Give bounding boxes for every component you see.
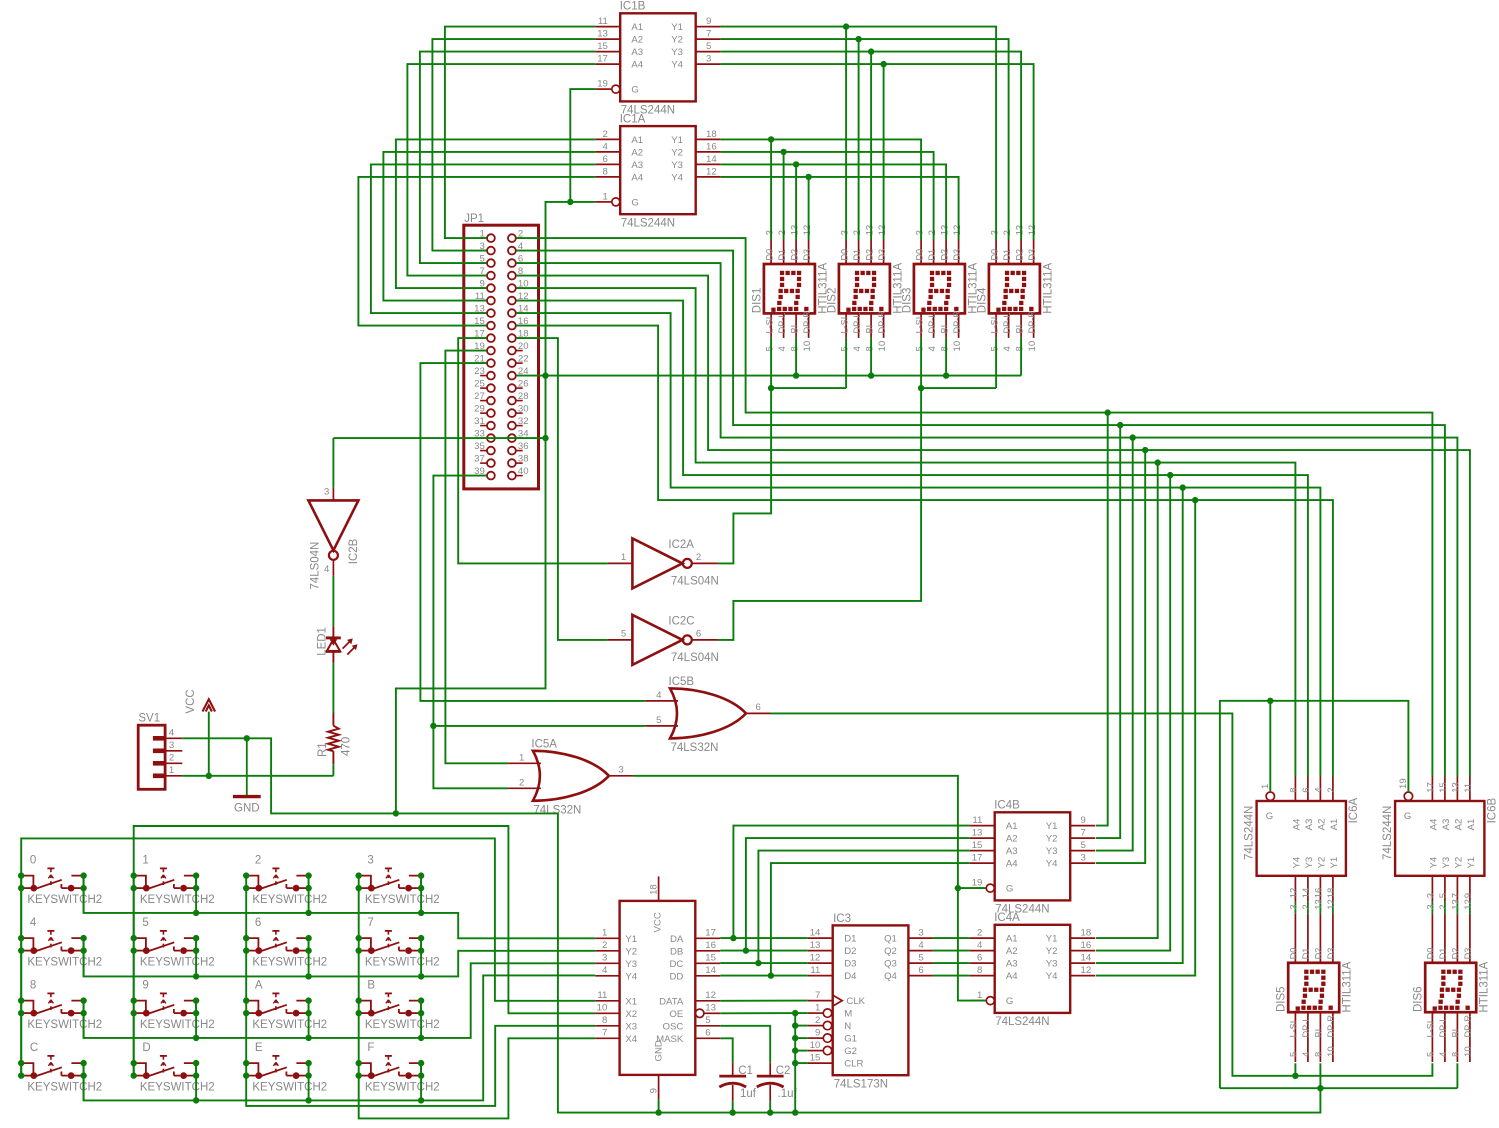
- svg-text:DP-R: DP-R: [877, 311, 887, 334]
- IC3 pin CLK (7): [808, 1000, 833, 1002]
- inverter IC2A 74LS04N: [632, 538, 682, 588]
- svg-text:9: 9: [1081, 815, 1086, 826]
- svg-text:Y4: Y4: [671, 173, 683, 184]
- DIS6 pin BI (8): [1456, 1012, 1458, 1062]
- svg-text:Y4: Y4: [1046, 971, 1058, 982]
- svg-text:18: 18: [1326, 888, 1337, 899]
- svg-text:6: 6: [918, 965, 923, 976]
- encoder pin X4 (7): [595, 1037, 619, 1039]
- svg-text:5: 5: [705, 1015, 710, 1026]
- wire JP1 pin 2 data line 0: [516, 238, 1432, 776]
- svg-text:DP-L: DP-L: [1002, 313, 1012, 334]
- DIS2 pin D0 (3): [845, 240, 847, 265]
- svg-text:1: 1: [142, 855, 148, 867]
- junction row 2 bus col 1: [193, 1035, 199, 1041]
- svg-text:DIS5: DIS5: [1276, 986, 1288, 1012]
- svg-text:74LS173N: 74LS173N: [834, 1079, 888, 1091]
- wire JP1 pin 33-34 row to IC2B input: [333, 437, 545, 439]
- svg-text:G: G: [631, 85, 638, 96]
- buffer IC1A 74LS244N box: [620, 126, 696, 214]
- junction GND at C2: [767, 1109, 773, 1115]
- svg-text:KEYSWITCH2: KEYSWITCH2: [140, 894, 215, 906]
- junction IC1B Y2 at DIS2 D1: [855, 36, 861, 42]
- svg-text:13: 13: [810, 940, 821, 951]
- svg-text:8: 8: [1314, 1052, 1325, 1057]
- IC6B pin Y3 (5): [1444, 876, 1446, 902]
- display DIS2 HTIL311A box: [839, 264, 890, 313]
- svg-text:D3: D3: [1027, 249, 1037, 261]
- wire IC1B Y3 to DIS2/DIS4 D2: [721, 52, 1021, 240]
- svg-text:29: 29: [474, 404, 485, 415]
- svg-text:A3: A3: [1304, 819, 1315, 831]
- svg-text:DP-L: DP-L: [1438, 1017, 1448, 1038]
- svg-text:F: F: [367, 1042, 374, 1054]
- svg-text:5: 5: [656, 715, 661, 726]
- svg-text:HTIL311A: HTIL311A: [1042, 263, 1054, 314]
- keyswitch D KEYSWITCH2: [131, 1042, 215, 1093]
- IC3 pin G1 (9): [808, 1037, 824, 1039]
- junction control riser at IC3 N: [792, 1022, 798, 1028]
- junction enable net / BI line: [542, 372, 548, 378]
- DIS1 pin BI (8): [795, 313, 797, 338]
- wire data line 0 to IC4B Y1: [1096, 413, 1108, 826]
- DIS3 pin D0 (3): [920, 240, 922, 265]
- svg-text:Y2: Y2: [1454, 857, 1465, 869]
- svg-text:Y3: Y3: [1046, 959, 1058, 970]
- svg-text:8: 8: [864, 346, 875, 351]
- wire L-SI DIS3-DIS4 from IC2C output: [921, 387, 996, 389]
- keyswitch 0 KEYSWITCH2: [18, 855, 102, 906]
- wire BI bus displays 1-4: [546, 375, 1022, 377]
- IC1A pin Y3 (14): [696, 163, 721, 165]
- svg-text:4: 4: [324, 564, 330, 575]
- svg-text:A1: A1: [631, 22, 643, 33]
- svg-text:38: 38: [518, 454, 529, 465]
- svg-text:DP-R: DP-R: [802, 311, 812, 334]
- svg-text:5: 5: [839, 346, 850, 351]
- power symbol VCC: [185, 689, 215, 713]
- svg-text:2: 2: [927, 230, 938, 235]
- svg-text:16: 16: [706, 141, 717, 152]
- wire DIS6 BI riser: [1456, 1063, 1458, 1088]
- wire IC5B output to DIS5/DIS6 L-SI: [771, 713, 1433, 1075]
- svg-text:1: 1: [815, 1003, 820, 1014]
- wire data line 1 to IC4B Y2: [1096, 425, 1120, 838]
- wire JP1 pin 8 data line 3: [516, 276, 1470, 777]
- svg-text:6: 6: [696, 629, 701, 640]
- wire IC5A output to IC4B/IC4A G: [633, 776, 985, 1001]
- svg-text:A1: A1: [1006, 934, 1018, 945]
- svg-text:7: 7: [1081, 828, 1086, 839]
- svg-text:DIS6: DIS6: [1413, 986, 1425, 1012]
- IC6A pin Y4 (12): [1294, 876, 1296, 902]
- encoder pin X3 (8): [595, 1025, 619, 1027]
- svg-text:KEYSWITCH2: KEYSWITCH2: [365, 1019, 440, 1031]
- svg-text:10: 10: [877, 341, 888, 352]
- wire DB to IC4B A2: [746, 838, 970, 951]
- svg-text:0: 0: [30, 855, 36, 867]
- IC3 pin D1 (14): [808, 937, 833, 939]
- IC1A pin A3 (6): [595, 163, 620, 165]
- svg-text:D3: D3: [844, 959, 856, 970]
- svg-text:VCC: VCC: [185, 689, 197, 713]
- svg-text:5: 5: [764, 346, 775, 351]
- svg-text:IC2B: IC2B: [348, 538, 360, 564]
- junction DD riser: [768, 972, 774, 978]
- svg-text:JP1: JP1: [464, 213, 484, 225]
- svg-text:2: 2: [696, 552, 701, 563]
- IC3 pin D3 (12): [808, 962, 833, 964]
- svg-text:KEYSWITCH2: KEYSWITCH2: [27, 894, 102, 906]
- junction OE/M at control riser: [792, 1010, 798, 1016]
- svg-text:13: 13: [1014, 225, 1025, 236]
- DIS4 pin BI (8): [1020, 313, 1022, 338]
- svg-text:N: N: [844, 1021, 851, 1032]
- svg-text:G: G: [1404, 811, 1411, 822]
- encoder pin DATA (12): [695, 1000, 720, 1002]
- IC6A pin A1 (2): [1332, 777, 1334, 802]
- svg-text:12: 12: [706, 166, 717, 177]
- IC4B pin G (19) with bubble: [970, 887, 986, 889]
- svg-text:A3: A3: [1441, 819, 1452, 831]
- IC3 pin D2 (13): [808, 950, 833, 952]
- DIS3 pin D1 (2): [933, 240, 935, 265]
- svg-text:D2: D2: [1451, 948, 1461, 960]
- svg-text:Y2: Y2: [1046, 946, 1058, 957]
- svg-text:26: 26: [518, 379, 529, 390]
- buffer IC6B 74LS244N box (rotated): [1395, 801, 1484, 876]
- svg-text:2: 2: [777, 230, 788, 235]
- svg-text:23: 23: [474, 366, 485, 377]
- keyswitch C KEYSWITCH2: [18, 1042, 102, 1093]
- connector JP1 40-pin header: [464, 213, 539, 489]
- junction IC1B Y1 at DIS2 D0: [843, 23, 849, 29]
- svg-text:32: 32: [518, 416, 529, 427]
- wire encoder OSC to C2: [720, 1026, 770, 1063]
- svg-text:6: 6: [1301, 787, 1312, 792]
- or-gate IC5A 74LS32N: [533, 751, 609, 801]
- svg-text:B: B: [367, 980, 375, 992]
- svg-text:Y2: Y2: [625, 946, 637, 957]
- svg-text:A4: A4: [631, 60, 643, 71]
- DIS4 dot-matrix digit 8: [1005, 271, 1009, 275]
- svg-text:9: 9: [706, 16, 711, 27]
- svg-text:DP-R: DP-R: [952, 311, 962, 334]
- svg-text:HTIL311A: HTIL311A: [1342, 961, 1354, 1012]
- svg-text:VCC: VCC: [653, 912, 664, 932]
- svg-text:5: 5: [142, 917, 148, 929]
- svg-text:KEYSWITCH2: KEYSWITCH2: [252, 894, 327, 906]
- svg-text:74LS244N: 74LS244N: [1243, 806, 1255, 860]
- junction DC riser: [755, 960, 761, 966]
- svg-text:D0: D0: [1289, 948, 1299, 960]
- encoder pin Y3 (3): [595, 962, 619, 964]
- IC3 pin D4 (11): [808, 975, 833, 977]
- encoder pin Y1 (1): [595, 937, 619, 939]
- DIS2 pin DP-L (4): [858, 313, 860, 338]
- svg-text:Y3: Y3: [671, 160, 683, 171]
- svg-text:1: 1: [621, 552, 626, 563]
- IC4A pin A3 (6): [970, 962, 995, 964]
- display DIS1 HTIL311A box: [764, 264, 815, 313]
- junction IC1A Y1 at DIS1 D0: [768, 136, 774, 142]
- junction data line 3 to IC4 buffer: [1142, 447, 1148, 453]
- svg-text:6: 6: [603, 154, 608, 165]
- junction L-SI at DIS3: [918, 385, 924, 391]
- junction row 0 bus col 1: [193, 910, 199, 916]
- svg-text:5: 5: [1438, 893, 1449, 898]
- svg-text:A2: A2: [631, 35, 643, 46]
- keyswitch 5 KEYSWITCH2: [131, 917, 215, 968]
- capacitor C2 .1uf: [757, 1063, 798, 1101]
- wire JP1 pin 1 to IC1B A1: [445, 27, 595, 239]
- IC4B pin A3 (15): [970, 850, 995, 852]
- svg-text:IC6A: IC6A: [1348, 798, 1360, 824]
- IC1B pin G (19) with bubble: [595, 88, 611, 90]
- encoder pin DA (17): [695, 937, 720, 939]
- IC6B pin Y4 (3): [1431, 876, 1433, 902]
- IC1B pin A3 (15): [595, 51, 620, 53]
- svg-text:15: 15: [705, 953, 716, 964]
- IC4B pin A1 (11): [970, 825, 995, 827]
- register IC3 74LS173N box: [833, 913, 909, 1091]
- svg-text:Y3: Y3: [1046, 846, 1058, 857]
- DIS6 pin L-SI (5): [1431, 1012, 1433, 1062]
- wire IC3 control riser to GND: [794, 1013, 796, 1113]
- svg-text:3: 3: [1081, 853, 1086, 864]
- wire JP1 pin 6 data line 2: [516, 263, 1457, 776]
- IC6B pin A3 (15): [1444, 777, 1446, 802]
- encoder pin Y2 (2): [595, 950, 619, 952]
- svg-text:17: 17: [597, 54, 608, 65]
- svg-text:KEYSWITCH2: KEYSWITCH2: [252, 956, 327, 968]
- svg-text:8: 8: [1014, 346, 1025, 351]
- wire IC3 Q1 to IC4A A1: [933, 937, 970, 939]
- svg-text:A3: A3: [1006, 846, 1018, 857]
- DIS5 pin D3 (12): [1332, 914, 1334, 963]
- svg-text:13: 13: [1314, 899, 1325, 910]
- svg-text:DA: DA: [670, 934, 684, 945]
- svg-text:4: 4: [918, 940, 924, 951]
- svg-text:1: 1: [169, 765, 174, 776]
- svg-text:2: 2: [1002, 230, 1013, 235]
- svg-text:IC4A: IC4A: [994, 912, 1020, 924]
- svg-text:13: 13: [1451, 899, 1462, 910]
- svg-text:17: 17: [1426, 782, 1437, 793]
- junction data line 2 to IC4 buffer: [1130, 434, 1136, 440]
- svg-text:8: 8: [1451, 1052, 1462, 1057]
- svg-text:Y3: Y3: [1441, 857, 1452, 869]
- svg-text:4: 4: [977, 940, 983, 951]
- svg-text:4: 4: [603, 141, 609, 152]
- svg-text:10: 10: [597, 1003, 608, 1014]
- encoder pin DB (16): [695, 950, 720, 952]
- wire IC1A Y2 to DIS1/DIS3 D1: [721, 152, 934, 240]
- svg-text:KEYSWITCH2: KEYSWITCH2: [252, 1019, 327, 1031]
- wire to IC4B G bubble: [958, 887, 986, 889]
- junction DA riser: [730, 935, 736, 941]
- DIS4 pin D1 (2): [1008, 240, 1010, 265]
- DIS6 pin D1 (2): [1444, 914, 1446, 963]
- svg-text:A1: A1: [1329, 819, 1340, 831]
- wire IC1B Y4 to DIS2/DIS4 D3: [721, 64, 1034, 239]
- DIS2 pin DP-R (10): [883, 313, 885, 338]
- keyswitch 1 KEYSWITCH2: [131, 855, 215, 906]
- svg-text:4: 4: [1314, 787, 1325, 793]
- svg-text:7: 7: [1451, 893, 1462, 898]
- inverter IC2B 74LS04N (rotated): [308, 500, 358, 550]
- svg-text:15: 15: [597, 41, 608, 52]
- DIS1 pin D0 (3): [770, 240, 772, 265]
- svg-text:R1: R1: [317, 742, 329, 757]
- svg-text:A3: A3: [631, 47, 643, 58]
- svg-text:KEYSWITCH2: KEYSWITCH2: [27, 1019, 102, 1031]
- svg-text:1uf: 1uf: [740, 1088, 757, 1100]
- svg-text:OE: OE: [669, 1009, 683, 1020]
- IC4A pin A1 (2): [970, 937, 995, 939]
- IC1A pin A4 (8): [595, 176, 620, 178]
- connector SV1: [138, 713, 182, 790]
- svg-text:DP-R: DP-R: [1326, 1015, 1336, 1038]
- wire SV1 pin 4 GND rail: [182, 738, 1320, 1112]
- wire JP1 pin 39 to IC5B input 5 and IC5A input 2: [433, 476, 508, 789]
- svg-text:A2: A2: [1454, 819, 1465, 831]
- svg-text:25: 25: [474, 379, 485, 390]
- svg-text:18: 18: [1081, 928, 1092, 939]
- svg-text:DP-R: DP-R: [1463, 1015, 1473, 1038]
- svg-text:G1: G1: [844, 1034, 857, 1045]
- svg-text:M: M: [844, 1009, 852, 1020]
- svg-text:X1: X1: [625, 996, 637, 1007]
- junction data line 6 to IC4 buffer: [1180, 484, 1186, 490]
- wire C2 to GND: [769, 1101, 771, 1112]
- svg-text:17: 17: [972, 853, 983, 864]
- svg-text:Y1: Y1: [671, 22, 683, 33]
- svg-text:15: 15: [972, 840, 983, 851]
- IC4B pin Y3 (5): [1070, 850, 1095, 852]
- svg-text:5: 5: [914, 346, 925, 351]
- svg-text:Y1: Y1: [1046, 821, 1058, 832]
- IC1B pin A2 (13): [595, 38, 620, 40]
- svg-text:9: 9: [1463, 893, 1474, 898]
- keyswitch 8 KEYSWITCH2: [18, 980, 102, 1031]
- wire IC1A Y1 to DIS1/DIS3 D0: [721, 139, 921, 239]
- IC4A pin A4 (8): [970, 975, 995, 977]
- wire keyboard row 0 bus to encoder Y1: [84, 876, 596, 939]
- IC4A pin A2 (4): [970, 950, 995, 952]
- encoder pin DD (14): [695, 975, 720, 977]
- svg-text:5: 5: [706, 41, 711, 52]
- svg-text:IC1A: IC1A: [620, 114, 646, 126]
- junction data line 0 to IC4 buffer: [1105, 409, 1111, 415]
- svg-text:16: 16: [705, 940, 716, 951]
- svg-text:4: 4: [1301, 1051, 1312, 1057]
- svg-text:7: 7: [367, 917, 373, 929]
- IC6A pin Y3 (14): [1307, 876, 1309, 902]
- IC3 pin CLR (15): [808, 1062, 833, 1064]
- svg-text:KEYSWITCH2: KEYSWITCH2: [140, 1019, 215, 1031]
- keyswitch 6 KEYSWITCH2: [243, 917, 327, 968]
- encoder pin X2 (10): [595, 1012, 619, 1014]
- buffer IC6A 74LS244N box (rotated): [1257, 801, 1346, 876]
- svg-text:BI: BI: [789, 325, 799, 334]
- svg-text:8: 8: [789, 346, 800, 351]
- encoder pin VCC (18): [658, 876, 660, 901]
- IC3 pin N (2): [808, 1025, 824, 1027]
- svg-text:G2: G2: [844, 1046, 857, 1057]
- junction control riser at IC3 G1: [792, 1035, 798, 1041]
- svg-text:DIS3: DIS3: [901, 288, 913, 314]
- svg-text:X3: X3: [625, 1021, 637, 1032]
- svg-text:DIS2: DIS2: [826, 288, 838, 314]
- IC1A pin Y4 (12): [696, 176, 721, 178]
- svg-text:DP-L: DP-L: [1301, 1017, 1311, 1038]
- svg-text:A4: A4: [631, 173, 643, 184]
- wire JP1 pin 3 to IC1B A2: [432, 39, 595, 251]
- svg-text:19: 19: [972, 878, 983, 889]
- DIS1 pin L-SI (5): [770, 313, 772, 338]
- svg-text:10: 10: [1326, 1046, 1337, 1057]
- svg-text:6: 6: [756, 702, 761, 713]
- wire encoder DC to IC3 D3: [720, 962, 808, 964]
- svg-text:D1: D1: [852, 249, 862, 261]
- svg-text:Y3: Y3: [671, 47, 683, 58]
- svg-text:Y1: Y1: [671, 135, 683, 146]
- svg-text:2: 2: [255, 855, 261, 867]
- svg-text:10: 10: [952, 341, 963, 352]
- svg-text:L-SI: L-SI: [1289, 1021, 1299, 1038]
- svg-text:L-SI: L-SI: [989, 317, 999, 334]
- svg-text:8: 8: [30, 980, 36, 992]
- DIS4 pin D2 (13): [1020, 240, 1022, 265]
- svg-text:D1: D1: [1301, 948, 1311, 960]
- IC6A pin A4 (8): [1294, 777, 1296, 802]
- junction L-SI at DIS1: [768, 385, 774, 391]
- svg-text:8: 8: [977, 965, 982, 976]
- junction row 0 bus col 2: [305, 910, 311, 916]
- svg-text:DP-L: DP-L: [777, 313, 787, 334]
- svg-text:D3: D3: [952, 249, 962, 261]
- svg-text:18: 18: [706, 129, 717, 140]
- junction IC1B Y3 at DIS2 D2: [868, 48, 874, 54]
- svg-text:74LS32N: 74LS32N: [671, 742, 719, 754]
- svg-text:12: 12: [1463, 899, 1474, 910]
- svg-text:9: 9: [142, 980, 148, 992]
- DIS6 dot-matrix digit 8: [1441, 970, 1445, 974]
- svg-text:12: 12: [1027, 225, 1038, 236]
- wire data line 3 to IC4B Y4: [1096, 450, 1145, 863]
- encoder pin GND (9): [658, 1075, 660, 1100]
- svg-text:KEYSWITCH2: KEYSWITCH2: [27, 956, 102, 968]
- svg-text:74LS04N: 74LS04N: [309, 542, 321, 590]
- DIS2 pin D3 (12): [883, 240, 885, 265]
- keyswitch 2 KEYSWITCH2: [243, 855, 327, 906]
- wire encoder MASK to C1: [720, 1038, 733, 1063]
- DIS5 pin BI (8): [1319, 1012, 1321, 1062]
- IC1B pin A1 (11): [595, 26, 620, 28]
- svg-text:470: 470: [340, 737, 352, 756]
- junction row 2 bus col 2: [305, 1035, 311, 1041]
- IC4A pin Y2 (16): [1070, 950, 1095, 952]
- svg-text:12: 12: [877, 225, 888, 236]
- DIS5 pin L-SI (5): [1294, 1012, 1296, 1062]
- DIS5 pin D1 (2): [1307, 914, 1309, 963]
- junction VCC riser: [206, 773, 212, 779]
- junction data line 1 to IC4 buffer: [1117, 422, 1123, 428]
- svg-text:DIS4: DIS4: [976, 287, 988, 313]
- svg-text:KEYSWITCH2: KEYSWITCH2: [365, 894, 440, 906]
- DIS6 pin D2 (13): [1456, 914, 1458, 963]
